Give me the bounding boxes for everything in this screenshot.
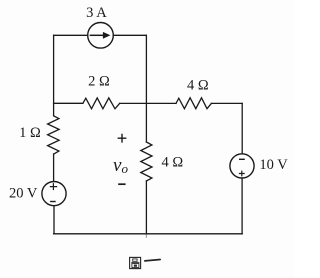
plus sign of vo polarity bbox=[118, 134, 127, 143]
current source arrow shaft bbox=[90, 34, 103, 36]
minus sign inside 10V source bbox=[239, 158, 245, 160]
resistor R 4ohm vertical zigzag bbox=[141, 142, 152, 181]
caption figure one glyph yi bbox=[145, 260, 160, 261]
current source I 3A circle bbox=[88, 23, 114, 49]
svg-text:20 V: 20 V bbox=[9, 185, 38, 201]
svg-text:2 Ω: 2 Ω bbox=[88, 73, 110, 89]
svg-text:10 V: 10 V bbox=[259, 157, 288, 173]
svg-text:4 Ω: 4 Ω bbox=[161, 155, 183, 171]
resistor R 2ohm zigzag bbox=[83, 98, 120, 109]
svg-text:4 Ω: 4 Ω bbox=[187, 77, 209, 93]
wire left column upper bbox=[53, 35, 55, 115]
svg-text:3 A: 3 A bbox=[86, 5, 107, 21]
wire middle row center segment bbox=[120, 102, 176, 104]
plus sign inside 20V source bbox=[50, 183, 57, 190]
plus sign inside 10V source bbox=[239, 171, 245, 177]
wire middle row left segment bbox=[54, 102, 83, 104]
wire middle column lower bbox=[145, 181, 147, 234]
svg-text:1 Ω: 1 Ω bbox=[19, 125, 41, 141]
svg-text:vo: vo bbox=[113, 155, 128, 176]
wire left column lower bbox=[53, 154, 55, 182]
resistor R 1ohm zigzag bbox=[48, 116, 60, 154]
voltage source V 20V circle bbox=[42, 182, 66, 206]
wire right column upper bbox=[241, 103, 243, 153]
wire middle row right segment bbox=[211, 102, 242, 104]
resistor R 4ohm horizontal zigzag bbox=[176, 98, 211, 109]
wire below 20V source bbox=[53, 206, 55, 234]
caption figure one glyph tu bbox=[130, 257, 141, 268]
voltage source V 10V circle bbox=[230, 154, 254, 178]
wire middle column upper bbox=[145, 35, 147, 142]
minus sign of vo polarity bbox=[118, 183, 125, 185]
current source arrowhead bbox=[103, 32, 111, 39]
wire top-right horizontal bbox=[113, 34, 146, 36]
minus sign inside 20V source bbox=[50, 201, 56, 203]
wire bottom horizontal bbox=[54, 233, 243, 235]
wire stub below bottom junction bbox=[145, 234, 147, 237]
wire right column lower bbox=[241, 178, 243, 234]
wire top-left horizontal bbox=[54, 34, 88, 36]
